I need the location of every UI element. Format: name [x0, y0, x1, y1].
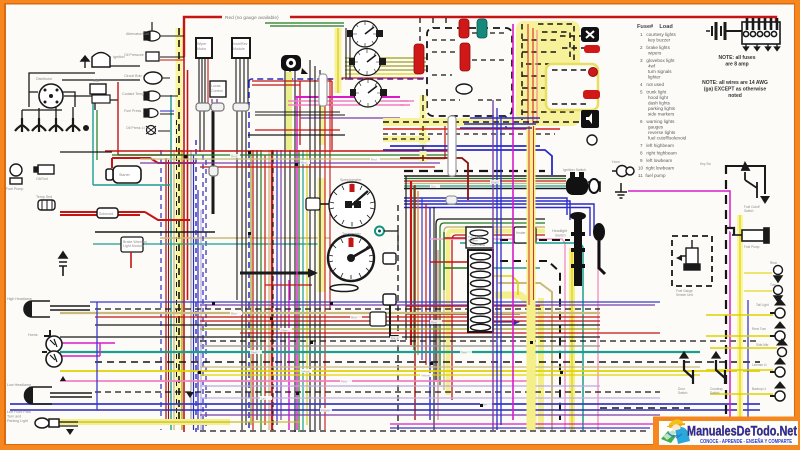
- watermark box: [653, 417, 800, 450]
- wire dense pack green x261: [260, 150, 262, 430]
- svg-text:Motor: Motor: [197, 47, 207, 51]
- wire backup switch line: [60, 151, 112, 153]
- wire yellow band x321: [318, 178, 325, 292]
- wire green loop: [440, 223, 545, 385]
- wire black verticals gauges: [346, 28, 350, 80]
- wire red horizontal y78: [340, 77, 424, 79]
- fuse box: [468, 250, 493, 332]
- wire blue-dash x249 down: [248, 82, 250, 430]
- wire dense pack purple x281: [280, 150, 282, 420]
- gauge cluster small fuel gauge: [347, 21, 383, 47]
- svg-text:3 glovebox light: 3 glovebox light: [640, 58, 675, 63]
- key buzzer connector: [383, 253, 396, 264]
- svg-text:1 courtesy lights: 1 courtesy lights: [640, 32, 676, 37]
- wiper motor box B1: [196, 38, 212, 58]
- wire dense pack olive x251: [250, 150, 252, 425]
- wire purple mid y163: [140, 162, 440, 164]
- fuse 4: [471, 280, 491, 287]
- svg-text:Red: Red: [301, 161, 307, 165]
- wire bottom y337 black: [60, 336, 600, 338]
- wire gray left loom x191: [190, 150, 192, 420]
- taillamp right col 1: [770, 299, 785, 318]
- inline fuse red mid2: [460, 43, 470, 71]
- wire yellow band right vertical: [569, 248, 575, 430]
- wire red starter S: [60, 158, 196, 220]
- svg-text:are 8 amp: are 8 amp: [725, 62, 748, 68]
- instr module box B2: [232, 38, 250, 58]
- svg-text:wipers: wipers: [648, 51, 662, 56]
- wire bottom y352 teal: [60, 351, 700, 353]
- svg-text:10 right lowbeam: 10 right lowbeam: [638, 166, 674, 171]
- spark plug 1: [15, 118, 29, 132]
- wire khaki loop2: [498, 283, 552, 430]
- taillamp right col 5: [770, 382, 785, 401]
- wire yellow line x338: [337, 28, 339, 93]
- wire magenta y97: [295, 96, 400, 98]
- wire vertical black x434: [433, 207, 435, 430]
- condensor box: [92, 95, 110, 103]
- wire bottom y431 black dash: [200, 430, 650, 432]
- fuse 7: [471, 307, 491, 314]
- yellow band crossing y122: [383, 118, 516, 126]
- wire nested loop black dashed: [500, 240, 570, 420]
- brake warning module: [121, 237, 143, 252]
- svg-text:side markers: side markers: [648, 112, 675, 117]
- white connector bar x323: [319, 74, 327, 106]
- distributor: [39, 84, 63, 108]
- svg-text:Sender Unit: Sender Unit: [676, 293, 693, 297]
- wire right upper lamp feeds: [744, 273, 772, 291]
- svg-text:parking lights: parking lights: [648, 106, 676, 111]
- connector bead x213: [209, 166, 218, 176]
- svg-text:Oil Pressure: Oil Pressure: [124, 53, 144, 57]
- svg-text:Switch: Switch: [555, 234, 566, 238]
- wire khaki crossing y238: [160, 237, 330, 239]
- yellow harness region: [516, 21, 580, 126]
- wire fuel cutoff loop: [727, 166, 765, 194]
- brake switch connector: [330, 285, 358, 292]
- wire main red feed top: [184, 17, 776, 57]
- hazard box X: [581, 27, 599, 42]
- wire bottom y317 red: [95, 316, 600, 318]
- blue loops left of band: [460, 118, 540, 128]
- fuse 8: [471, 316, 491, 323]
- wire dense pack thick red x272: [271, 150, 273, 430]
- svg-text:Parking Light: Parking Light: [7, 419, 28, 423]
- svg-text:turn signals: turn signals: [648, 69, 672, 74]
- svg-text:Side Mkr: Side Mkr: [756, 343, 770, 347]
- wire bottom y333 red: [240, 332, 660, 334]
- svg-text:NOTE: all wires are 14 AWG: NOTE: all wires are 14 AWG: [702, 80, 768, 86]
- connector bead 3: [233, 103, 249, 111]
- fuel cutoff switch: [742, 163, 757, 198]
- svg-text:Red: Red: [351, 316, 357, 320]
- dashes in yellow box: [552, 70, 590, 104]
- wire tag marks: [230, 154, 500, 412]
- svg-text:4wf: 4wf: [648, 64, 656, 69]
- wire yellow band loop: [448, 231, 545, 395]
- hazard icon black: [281, 55, 308, 74]
- hazard connector box: [370, 312, 386, 326]
- wire blkdash left loom x176: [176, 120, 178, 425]
- wire bottom y325 black: [95, 324, 600, 326]
- svg-text:6 warning lights: 6 warning lights: [640, 119, 675, 124]
- purple vertical x493: [492, 100, 494, 430]
- svg-text:Oil Press Lt: Oil Press Lt: [126, 126, 145, 130]
- svg-text:Headlight: Headlight: [552, 229, 567, 233]
- wire bottom y428 blue: [390, 427, 650, 429]
- svg-text:4 not used: 4 not used: [640, 82, 664, 87]
- svg-text:Lav: Lav: [261, 397, 266, 401]
- svg-text:lighter: lighter: [648, 75, 661, 80]
- temp sender left: [38, 200, 55, 210]
- junction nodes: [248, 151, 251, 154]
- wire right loom black dash firewall: [725, 165, 727, 432]
- wire red coil area: [118, 82, 184, 155]
- svg-text:Fuel Pump: Fuel Pump: [6, 187, 23, 191]
- wire blue left vertical: [96, 302, 98, 410]
- harness dashed loops: [522, 24, 588, 120]
- wire tight bundle black top: [404, 175, 566, 177]
- svg-text:Fuel Press: Fuel Press: [124, 109, 141, 113]
- wire tight bundle green: [404, 178, 566, 180]
- wire black y135: [248, 134, 345, 136]
- control box: [210, 81, 226, 97]
- svg-text:Switch: Switch: [710, 391, 720, 395]
- node dot: [83, 125, 89, 131]
- wire red x325: [325, 74, 330, 430]
- wire thick black x213: [212, 111, 215, 214]
- wire tight bundle teal: [404, 185, 566, 187]
- blue verticals x497 x501: [497, 108, 501, 430]
- harness pink line: [536, 30, 538, 124]
- wire green pair top: [265, 23, 344, 26]
- alternator symbol: [144, 31, 160, 41]
- svg-text:Coolant Temp: Coolant Temp: [122, 92, 144, 96]
- wire corner red x410: [410, 181, 412, 345]
- taillamp right col 3: [777, 339, 787, 357]
- wire tight bundle black bottom: [404, 188, 566, 190]
- wire red y285: [265, 284, 312, 286]
- svg-text:Fuel Pump: Fuel Pump: [744, 245, 760, 249]
- wire tight bundle red: [404, 180, 566, 182]
- wire blue-dash left loom x161: [160, 150, 162, 430]
- svg-text:Heater: Heater: [516, 231, 527, 235]
- wire bottom y313 khaki: [60, 312, 600, 314]
- wire left lamp leads low: [50, 393, 92, 397]
- wire magenta x297 down: [296, 97, 298, 430]
- speaker box: [581, 110, 599, 128]
- yellow band x423: [420, 95, 427, 162]
- module red lead: [130, 252, 132, 268]
- svg-text:Fuse# Load: Fuse# Load: [637, 24, 673, 30]
- wire bottom y392 black dash: [95, 391, 660, 393]
- svg-text:Horns: Horns: [28, 333, 38, 337]
- high headlamp left: [24, 301, 50, 317]
- wire bottom y362 black dash: [95, 361, 760, 363]
- wire khaki mid y159: [140, 158, 445, 160]
- svg-text:Horn: Horn: [612, 160, 620, 164]
- svg-text:Ignition Switch: Ignition Switch: [563, 168, 586, 172]
- inline fuse red mid1: [414, 44, 424, 74]
- arrow up symbol: [81, 56, 89, 68]
- svg-text:Light Module: Light Module: [123, 244, 144, 248]
- wire dense pack dash x273: [272, 150, 274, 430]
- svg-text:reverse lights: reverse lights: [648, 130, 676, 135]
- fuse 6: [471, 298, 491, 305]
- svg-text:Circuit Brkr: Circuit Brkr: [124, 74, 143, 78]
- gauge cluster small temp gauge: [349, 49, 386, 76]
- white connector bar: [448, 116, 456, 176]
- starter solenoid: [97, 208, 118, 218]
- fuel pump right: [726, 228, 769, 243]
- watermark mascot: [661, 419, 690, 444]
- svg-text:CONOCE - APRENDE - ENSEÑA Y CO: CONOCE - APRENDE - ENSEÑA Y COMPARTE: [700, 438, 792, 445]
- svg-text:Left Front Park: Left Front Park: [7, 410, 31, 414]
- wire yellow band x541: [538, 298, 544, 430]
- wire green x299: [298, 150, 300, 432]
- wire bottom y341 black dash: [200, 340, 760, 342]
- svg-text:Grn: Grn: [431, 185, 436, 189]
- svg-text:Flasher: Flasher: [468, 239, 478, 243]
- door switch: [680, 352, 693, 384]
- wire red y130: [255, 129, 340, 131]
- wire bluedash left loom x206: [205, 160, 207, 430]
- svg-text:Backup Lt: Backup Lt: [752, 387, 766, 391]
- svg-text:Tachometer: Tachometer: [342, 232, 362, 236]
- battery plus arrow: [59, 252, 67, 276]
- wire blue-dash x196: [195, 140, 197, 432]
- tachometer: [328, 235, 374, 281]
- spark plug 3: [49, 118, 63, 132]
- inline fuse teal top: [477, 19, 487, 38]
- wire corner black x406: [405, 176, 407, 340]
- svg-text:Yellow: Yellow: [421, 374, 430, 378]
- wire corner blue x422: [421, 198, 423, 360]
- connector bead 2: [211, 103, 224, 111]
- ground symbol right: [615, 183, 627, 198]
- svg-text:8 right highbeam: 8 right highbeam: [640, 151, 677, 156]
- wire pink loop right: [400, 101, 414, 105]
- parking lamp left: [35, 418, 74, 435]
- svg-text:Tail Light: Tail Light: [756, 303, 769, 307]
- wire bottom y309 black dash: [95, 308, 600, 310]
- wire black crossing y232: [95, 231, 215, 233]
- svg-text:9 left lowbeam: 9 left lowbeam: [640, 158, 672, 163]
- wire verticals x305-330: [310, 60, 320, 432]
- wire dense pack khaki x269: [268, 150, 270, 430]
- svg-text:fuel cutoff/solenoid: fuel cutoff/solenoid: [648, 136, 687, 141]
- wire red lead comp2: [160, 59, 184, 61]
- wire right lamp feeds: [706, 315, 777, 394]
- svg-text:5 trunk light: 5 trunk light: [640, 90, 667, 95]
- wire blue bundle y198: [404, 198, 594, 236]
- wire maroon left loom x168: [168, 160, 170, 420]
- wire dense pack red x265: [264, 155, 266, 425]
- wire red x415: [414, 185, 416, 420]
- svg-text:Solenoid: Solenoid: [99, 212, 113, 216]
- fuse 2: [471, 262, 491, 269]
- wire bottom-left yellow line: [35, 421, 300, 423]
- white circle symbol: [587, 135, 597, 145]
- svg-text:noted: noted: [728, 93, 742, 99]
- wire black dash bottom right: [600, 407, 690, 409]
- turnlamp right 2: [774, 286, 783, 303]
- yellow band2 y139: [383, 136, 430, 142]
- wire corner red x426: [425, 204, 427, 365]
- wire red out y306: [490, 306, 540, 314]
- wire from seatbelt conn: [390, 305, 398, 336]
- horn left 1: [44, 330, 62, 352]
- svg-text:2 brake lights: 2 brake lights: [640, 45, 671, 50]
- wire bottom y410 blue: [10, 409, 760, 411]
- wire bottom y375 yellow: [200, 374, 700, 376]
- wire bottom y321 red: [200, 320, 600, 322]
- wire bottom y381 pink: [60, 380, 530, 382]
- wire teal left loom: [170, 95, 172, 430]
- yellow border box right: [546, 64, 598, 110]
- svg-text:Switch: Switch: [744, 209, 754, 213]
- ignition coil: [90, 84, 106, 94]
- wire red B1 lead: [207, 58, 209, 103]
- svg-text:Switch: Switch: [678, 391, 688, 395]
- starter motor: [106, 166, 141, 183]
- wire bottom y404 blue: [10, 403, 760, 405]
- wire bottom y424 magenta: [390, 423, 655, 425]
- speedometer: [329, 182, 375, 228]
- fuel pressure symbol: [144, 109, 158, 118]
- ignition relay: [92, 53, 110, 68]
- inline fuse red top1: [459, 19, 469, 38]
- wire yellowgreen band x289: [286, 72, 292, 150]
- wire vertical salmon x438: [437, 250, 439, 420]
- red pill 2: [583, 90, 600, 99]
- fuel pump left symbol: [10, 164, 22, 184]
- wire red loop corner: [452, 235, 545, 400]
- svg-text:NOTE: all fuses: NOTE: all fuses: [719, 55, 756, 61]
- low headlamp left: [25, 376, 67, 404]
- wire arrow feed y273: [240, 272, 308, 275]
- spark plug 4: [66, 118, 80, 132]
- wire yellow band left loom: [176, 28, 183, 420]
- wire B1 box leads down: [199, 58, 205, 103]
- wire dense pack red x253: [252, 150, 254, 430]
- svg-text:7 left highbeam: 7 left highbeam: [640, 143, 674, 148]
- wire red left loom x166: [165, 158, 167, 425]
- wire top-left loop to relay: [29, 66, 140, 107]
- wire fuse green feed: [444, 232, 470, 290]
- ignition switch: [566, 172, 599, 195]
- svg-text:High Headlamp: High Headlamp: [7, 297, 32, 301]
- horn right: [612, 166, 634, 177]
- svg-text:Control: Control: [211, 89, 223, 93]
- wire B2 box leads down: [236, 58, 248, 103]
- svg-text:Rear: Rear: [770, 261, 778, 265]
- wire bottom y367 khaki: [200, 366, 700, 368]
- svg-text:Blue: Blue: [231, 312, 237, 316]
- glove box inner dashes: [432, 33, 505, 100]
- dimmer switch: [593, 223, 605, 274]
- oil sender symbol: [146, 52, 159, 61]
- dashed stubs to top: [420, 18, 482, 46]
- wire dense pack yellow x307: [306, 150, 308, 425]
- connector bead 1: [196, 103, 210, 111]
- fuse 5: [471, 289, 491, 296]
- wire black dashed big horizontal y171: [404, 170, 545, 172]
- wire right loom yellow band: [737, 215, 743, 430]
- wire distributor box loop: [22, 92, 75, 118]
- blue bundle y146: [383, 146, 552, 175]
- turn flasher box: [466, 227, 493, 248]
- red indicator circle: [589, 68, 598, 77]
- wire olive bundle horizontals: [345, 58, 426, 70]
- wire green coil down: [96, 110, 98, 160]
- wire dense pack blue x277: [276, 150, 278, 425]
- wire bottom y371 yellow: [60, 370, 760, 372]
- wire blkdash x398: [397, 205, 399, 430]
- svg-text:Red (no gauge available): Red (no gauge available): [225, 15, 279, 21]
- svg-text:Distributor: Distributor: [36, 77, 53, 81]
- teal indicator wire: [384, 231, 398, 250]
- wire yellow line right vertical: [571, 248, 573, 430]
- wire bottom y386 lavender: [200, 385, 600, 387]
- wire red bundle mid horizontals: [105, 150, 455, 152]
- wire nested loop yellow band: [495, 295, 533, 430]
- svg-text:hood light: hood light: [648, 95, 669, 100]
- svg-text:Black: Black: [391, 337, 399, 341]
- wire black stub x152: [151, 22, 153, 32]
- wire black y112 pair: [255, 112, 345, 115]
- wire khaki loop corner: [444, 227, 545, 390]
- svg-text:Teal: Teal: [461, 351, 467, 355]
- heater box: [514, 227, 536, 243]
- svg-text:key buzzer: key buzzer: [648, 38, 671, 43]
- wire lavender left loom x201: [200, 210, 202, 430]
- wire blue-dash center loom: [249, 79, 506, 130]
- svg-text:Instr/Rev: Instr/Rev: [233, 42, 248, 46]
- wire vertical blue x430: [429, 207, 431, 420]
- svg-text:(ga) EXCEPT as otherwise: (ga) EXCEPT as otherwise: [704, 87, 766, 93]
- sender arrow: [676, 255, 682, 261]
- magenta vertical x513: [512, 24, 514, 420]
- wire khaki left loom x174: [173, 150, 175, 430]
- svg-text:Speedometer: Speedometer: [340, 178, 362, 182]
- horn left 2: [42, 351, 62, 367]
- svg-text:Teal: Teal: [251, 351, 257, 355]
- wire bottom y346 gray: [200, 345, 600, 347]
- wire black loop: [436, 219, 545, 380]
- wire bottom y329 olive: [200, 328, 600, 330]
- harness red pair: [528, 24, 533, 124]
- wire olive left loom x182: [181, 150, 183, 430]
- svg-text:ManualesDeTodo.Net: ManualesDeTodo.Net: [687, 423, 797, 439]
- oil sender left: [34, 165, 54, 174]
- wire bottom y398 lavender: [200, 397, 660, 399]
- svg-text:Coil: Coil: [93, 79, 99, 83]
- speedo cable connector: [306, 198, 320, 210]
- svg-text:Ignition: Ignition: [113, 55, 125, 59]
- wire corner orange x418: [417, 191, 419, 355]
- wire bead blue bundle: [446, 196, 457, 204]
- wire teal from coil down: [93, 102, 170, 185]
- wire blue-dash x203: [202, 155, 204, 430]
- arrowhead y273: [308, 269, 318, 278]
- dash crossing y134: [383, 133, 555, 135]
- wire fuse feeds left: [406, 238, 470, 314]
- red crossing y129: [383, 128, 560, 130]
- temp sender symbol: [144, 91, 160, 101]
- wire blue left loom pair: [194, 155, 199, 430]
